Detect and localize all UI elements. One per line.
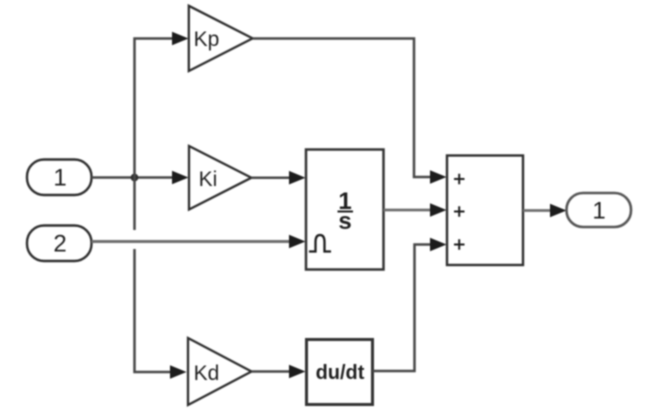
svg-text:1: 1: [592, 198, 605, 225]
arrowhead into outport: [550, 204, 567, 218]
arrowhead into integrator input 1: [289, 171, 306, 185]
wire Kp output to sum top input: [253, 39, 430, 178]
arrowhead into sum top input: [430, 170, 447, 184]
arrowhead into sum middle input: [430, 203, 447, 217]
arrowhead into Kd: [170, 365, 187, 379]
wire branch vertical up to Kp row: [135, 39, 173, 178]
gain Kp: [189, 6, 253, 71]
svg-text:Kp: Kp: [194, 28, 220, 51]
arrowhead into Kp: [172, 32, 189, 46]
sum block: [447, 156, 523, 266]
svg-text:1: 1: [53, 165, 66, 192]
svg-text:du/dt: du/dt: [316, 362, 365, 384]
gain Ki: [189, 146, 251, 210]
wire Kd output to du/dt: [252, 370, 290, 373]
svg-text:s: s: [338, 208, 351, 235]
integrator U1 block 1/s: [306, 150, 384, 270]
wire from inport 2 to integrator input 2: [92, 240, 290, 243]
gain Kd: [188, 338, 252, 405]
integrator reset-port pulse icon: [309, 235, 331, 252]
wire from inport 1 to Ki arrow: [92, 176, 173, 179]
inport 2: [27, 226, 92, 262]
outport 1: [567, 193, 632, 227]
svg-text:Kd: Kd: [194, 362, 220, 385]
svg-text:2: 2: [53, 231, 66, 258]
svg-text:Ki: Ki: [199, 168, 218, 191]
wire Ki output to integrator: [251, 176, 289, 179]
junction dot node: [131, 174, 139, 182]
arrowhead into Ki: [172, 171, 189, 185]
arrowhead into du/dt: [289, 365, 306, 379]
wire sum output to outport: [523, 209, 550, 212]
wire du/dt output to sum bottom input: [373, 245, 431, 372]
arrowhead into integrator input 2: [289, 235, 306, 249]
wire branch vertical down to Kd row (gap at wire 2 crossing): [135, 178, 171, 373]
wire integrator output to sum middle input: [384, 209, 431, 212]
derivative block du/dt: [307, 340, 373, 405]
arrowhead into sum bottom input: [430, 238, 447, 252]
inport 1: [27, 160, 92, 196]
